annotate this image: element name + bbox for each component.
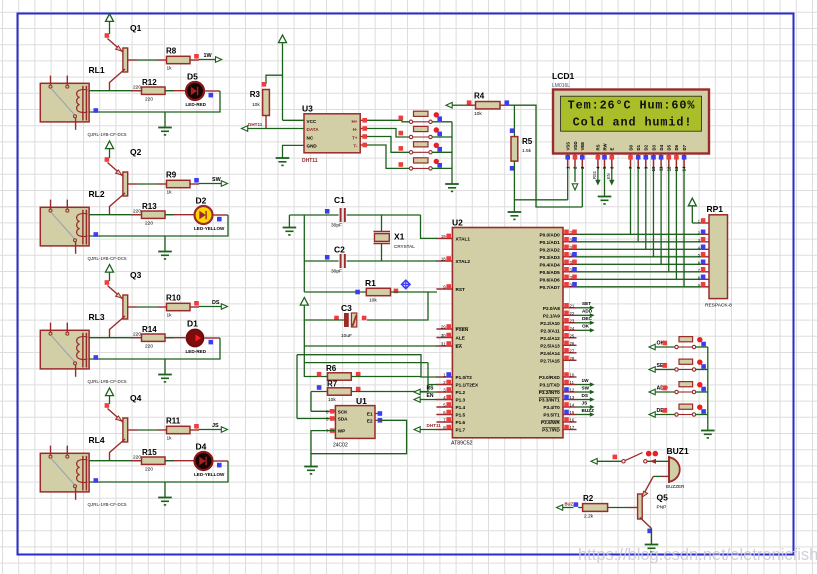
svg-text:2.2k: 2.2k bbox=[584, 514, 594, 520]
ground bbox=[164, 236, 166, 252]
net terminal (buzzer supply) bbox=[591, 459, 597, 465]
power terminal for RP1 bbox=[688, 198, 696, 206]
ground bbox=[276, 157, 290, 159]
U2 pin 11 P3.1/TXD bbox=[563, 384, 577, 386]
wire LCD D1 to P0.1 bus bbox=[637, 168, 639, 242]
svg-text:LM016L: LM016L bbox=[552, 83, 570, 89]
wire LCD D2 to P0.2 bus bbox=[645, 168, 647, 249]
wire R15 to D4 bbox=[165, 460, 194, 462]
resistor R6 10k bbox=[304, 376, 327, 378]
wire RST to C3 bbox=[367, 292, 428, 320]
svg-text:C1: C1 bbox=[334, 195, 345, 205]
wire switch to buzzer bbox=[647, 460, 669, 462]
U2 pin 39 P0.0/AD0 bbox=[563, 233, 577, 235]
U2 pin 36 P0.3/AD3 bbox=[563, 256, 577, 258]
svg-text:RS1: RS1 bbox=[592, 170, 597, 179]
U2 pin 18 XTAL2 bbox=[436, 260, 452, 262]
wire buzzer bottom to Q5 emitter bbox=[662, 475, 669, 477]
net terminal DS bbox=[190, 306, 199, 308]
svg-text:C3: C3 bbox=[341, 303, 352, 313]
node junction bbox=[94, 232, 99, 237]
resistor R13 220 bbox=[131, 214, 146, 216]
RP1 pin 8 bbox=[701, 278, 709, 280]
button (DHT11 adjust 1) bbox=[409, 120, 412, 123]
relay RL2 bbox=[40, 207, 89, 246]
svg-text:XTAL2: XTAL2 bbox=[456, 259, 471, 264]
svg-text:P3.2/INT0: P3.2/INT0 bbox=[539, 390, 560, 395]
U2 pin 16 P3.6/WR bbox=[563, 421, 577, 423]
capacitor C1 30pF bbox=[325, 209, 330, 214]
wire button to ground rail bbox=[696, 346, 708, 348]
svg-text:DS: DS bbox=[582, 393, 589, 398]
svg-text:D3: D3 bbox=[651, 144, 656, 150]
net E to down arrow bbox=[611, 168, 613, 180]
power terminal VCC rail bbox=[300, 298, 308, 306]
svg-text:QJRL-1#B-CF-DC5: QJRL-1#B-CF-DC5 bbox=[88, 256, 128, 261]
U2 pin 2 P1.1/T2EX bbox=[436, 384, 452, 386]
wire R12 to D5 bbox=[165, 90, 186, 92]
U2 pin 25 P2.4/A12 bbox=[563, 337, 577, 339]
wire SDA vertical bbox=[296, 355, 298, 419]
svg-text:D1: D1 bbox=[636, 144, 641, 150]
RP1 pin 7 bbox=[701, 271, 709, 273]
svg-text:R11: R11 bbox=[166, 417, 181, 426]
svg-text:30: 30 bbox=[441, 333, 446, 338]
svg-text:13: 13 bbox=[570, 395, 575, 400]
LED D1 LED-RED bbox=[186, 329, 203, 346]
svg-text:P1.0/T2: P1.0/T2 bbox=[456, 375, 473, 380]
wire button to ground rail bbox=[432, 167, 452, 169]
transistor Q3 (PNP) bbox=[108, 286, 123, 300]
svg-text:RS: RS bbox=[596, 144, 601, 150]
wire coil row bbox=[89, 337, 146, 339]
svg-text:D1: D1 bbox=[187, 319, 198, 329]
node junction bbox=[94, 108, 99, 113]
svg-text:EN: EN bbox=[606, 173, 611, 179]
transistor Q5 (PNP) bbox=[641, 476, 653, 498]
wire coil row bbox=[89, 90, 146, 92]
svg-text:P0.2/AD2: P0.2/AD2 bbox=[539, 247, 560, 252]
svg-text:30pF: 30pF bbox=[331, 223, 342, 229]
ground bbox=[304, 466, 318, 468]
respack RP1 RESPACK-8 bbox=[709, 215, 728, 299]
svg-text:H+: H+ bbox=[351, 119, 357, 124]
svg-text:LED-RED: LED-RED bbox=[186, 349, 207, 354]
svg-text:R14: R14 bbox=[142, 325, 157, 334]
wire C3 to VCC rail bbox=[304, 319, 344, 321]
svg-text:P2.0/A8: P2.0/A8 bbox=[543, 306, 560, 311]
svg-text:DHT11: DHT11 bbox=[427, 423, 442, 428]
wire coil row bbox=[89, 214, 146, 216]
svg-text:10k: 10k bbox=[328, 397, 336, 403]
svg-text:T+: T+ bbox=[352, 135, 358, 140]
U2 pin 19 XTAL1 bbox=[436, 237, 452, 239]
svg-text:DHT11: DHT11 bbox=[248, 122, 263, 127]
svg-text:220: 220 bbox=[145, 97, 153, 103]
wire button to ground rail bbox=[432, 121, 452, 123]
svg-text:PNP: PNP bbox=[657, 505, 667, 511]
resistor R7 10k bbox=[311, 391, 328, 393]
LED D4 LED-YELLOW bbox=[195, 452, 213, 470]
svg-text:P0.3/AD3: P0.3/AD3 bbox=[539, 255, 560, 260]
U2 pin 33 P0.6/AD6 bbox=[563, 278, 577, 280]
svg-text:R2: R2 bbox=[583, 494, 594, 503]
svg-text:P2.6/A14: P2.6/A14 bbox=[540, 351, 560, 356]
svg-text:P0.6/AD6: P0.6/AD6 bbox=[539, 277, 560, 282]
wire R2 to Q5 base bbox=[608, 507, 628, 509]
svg-text:D2: D2 bbox=[196, 196, 207, 206]
wire coil row bbox=[89, 460, 146, 462]
svg-text:P3.6/WR: P3.6/WR bbox=[541, 420, 560, 425]
svg-text:26: 26 bbox=[570, 341, 575, 346]
ground for C1 C2 bbox=[288, 215, 290, 227]
resistor R12 220 bbox=[131, 90, 146, 92]
svg-text:17: 17 bbox=[570, 425, 575, 430]
svg-text:P2.5/A13: P2.5/A13 bbox=[540, 343, 560, 348]
wire LCD D6 to P0.6 bus bbox=[675, 168, 677, 279]
power terminal for Q1 bbox=[106, 14, 114, 22]
U2 pin 23 P2.2/A10 bbox=[563, 322, 577, 324]
svg-text:LCD1: LCD1 bbox=[552, 71, 574, 81]
U2 pin 34 P0.5/AD5 bbox=[563, 271, 577, 273]
wire R14 to D1 bbox=[165, 337, 186, 339]
U1 pin E1 bbox=[375, 413, 380, 415]
svg-text:T-: T- bbox=[353, 144, 358, 149]
power terminal for Q3 bbox=[106, 265, 114, 273]
svg-text:GND: GND bbox=[307, 144, 318, 149]
svg-text:P2.7/A15: P2.7/A15 bbox=[540, 358, 560, 363]
svg-text:AT89C52: AT89C52 bbox=[451, 441, 473, 447]
net terminal ADD bbox=[649, 389, 655, 395]
svg-text:P2.4/A12: P2.4/A12 bbox=[540, 336, 560, 341]
svg-text:27: 27 bbox=[570, 348, 575, 353]
svg-text:E2: E2 bbox=[367, 418, 373, 423]
wire R6 to P1.0 bbox=[351, 376, 421, 378]
svg-text:R9: R9 bbox=[166, 171, 177, 180]
button SET bbox=[675, 368, 678, 371]
U2 pin 32 P0.7/AD7 bbox=[563, 286, 577, 288]
svg-text:P1.3: P1.3 bbox=[456, 398, 466, 403]
resistor R15 220 bbox=[131, 460, 146, 462]
svg-text:24C02: 24C02 bbox=[333, 443, 348, 449]
svg-text:P1.4: P1.4 bbox=[456, 405, 466, 410]
transistor Q4 (PNP) bbox=[108, 409, 123, 423]
svg-text:C2: C2 bbox=[334, 245, 345, 255]
U2 pin 4 P1.3 bbox=[436, 399, 452, 401]
wire U3 VCC bbox=[283, 119, 305, 121]
button (DHT11 adjust 2) bbox=[409, 135, 412, 138]
wire U3 pin to button 4 bbox=[360, 144, 368, 146]
svg-text:XTAL1: XTAL1 bbox=[456, 236, 471, 241]
svg-text:QJRL-1#B-CF-DC5: QJRL-1#B-CF-DC5 bbox=[88, 502, 128, 507]
svg-text:VCC: VCC bbox=[307, 119, 317, 124]
svg-text:24: 24 bbox=[570, 326, 575, 331]
U2 pin 1 P1.0/T2 bbox=[436, 376, 452, 378]
sensor U3 DHT11 bbox=[304, 114, 360, 153]
svg-text:P1.6: P1.6 bbox=[456, 420, 466, 425]
svg-text:1k: 1k bbox=[167, 190, 173, 196]
U2 pin 12 P3.2/INT0 bbox=[563, 391, 577, 393]
button ADD bbox=[675, 390, 678, 393]
svg-text:RESPACK-8: RESPACK-8 bbox=[705, 303, 732, 309]
svg-text:D2: D2 bbox=[644, 144, 649, 150]
svg-text:15: 15 bbox=[570, 410, 575, 415]
svg-text:P1.5: P1.5 bbox=[456, 413, 466, 418]
U2 pin 22 P2.1/A9 bbox=[563, 314, 577, 316]
svg-text:P0.1/AD1: P0.1/AD1 bbox=[539, 240, 560, 245]
net terminal OK bbox=[649, 344, 655, 350]
svg-text:10: 10 bbox=[570, 373, 575, 378]
button (DHT11 adjust 4) bbox=[409, 167, 412, 170]
U2 pin 37 P0.2/AD2 bbox=[563, 248, 577, 250]
wire base to R9 bbox=[137, 183, 157, 185]
relay RL4 bbox=[40, 453, 89, 492]
button DEC bbox=[675, 413, 678, 416]
svg-text:DATA: DATA bbox=[307, 127, 320, 132]
switch (buzzer test) bbox=[622, 460, 625, 463]
RP1 pin 5 bbox=[701, 256, 709, 258]
RP1 pin 3 bbox=[701, 241, 709, 243]
svg-text:25: 25 bbox=[570, 333, 575, 338]
power terminal for U3 bbox=[279, 35, 287, 43]
wire LED loop bbox=[204, 90, 220, 92]
svg-text:R1: R1 bbox=[365, 278, 376, 288]
svg-text:12: 12 bbox=[570, 388, 575, 393]
svg-text:E: E bbox=[610, 148, 615, 151]
net terminal BUZZ / resistor R2 bbox=[557, 505, 563, 511]
svg-text:10k: 10k bbox=[474, 111, 482, 117]
resistor R5 1.5k bbox=[510, 128, 515, 133]
svg-text:28: 28 bbox=[570, 356, 575, 361]
svg-text:RST: RST bbox=[456, 287, 466, 292]
wire U3 pin to button 3 bbox=[360, 136, 368, 138]
resistor R9 1k bbox=[167, 180, 191, 187]
svg-text:P0.4/AD4: P0.4/AD4 bbox=[539, 262, 560, 267]
svg-text:P3.1/TXD: P3.1/TXD bbox=[539, 383, 560, 388]
relay RL3 bbox=[40, 330, 89, 369]
svg-text:Tem:26°C Hum:60%: Tem:26°C Hum:60% bbox=[568, 99, 696, 113]
resistor R3 10k bbox=[262, 82, 267, 87]
U2 pin 38 P0.1/AD1 bbox=[563, 241, 577, 243]
transistor Q2 (PNP) bbox=[108, 163, 123, 177]
node marker (blue diamond) bbox=[402, 280, 410, 288]
svg-text:BUZ1: BUZ1 bbox=[667, 446, 689, 456]
svg-text:220: 220 bbox=[145, 221, 153, 227]
resistor R1 10k bbox=[355, 290, 360, 295]
resistor R4 10k bbox=[467, 100, 472, 105]
svg-text:SCK: SCK bbox=[338, 409, 348, 414]
svg-text:VEE: VEE bbox=[580, 142, 585, 151]
U2 pin 29 PSEN bbox=[436, 328, 452, 330]
svg-text:1W: 1W bbox=[582, 378, 590, 383]
svg-text:NC: NC bbox=[307, 135, 314, 140]
U2 pin 14 P3.4/T0 bbox=[563, 406, 577, 408]
svg-text:R8: R8 bbox=[166, 47, 177, 56]
node junction bbox=[94, 355, 99, 360]
wire base to R11 bbox=[137, 429, 157, 431]
wire EA to VCC bbox=[304, 345, 437, 347]
svg-text:P2.1/A9: P2.1/A9 bbox=[543, 313, 560, 318]
resistor R14 220 bbox=[131, 337, 146, 339]
RP1 pin 6 bbox=[701, 263, 709, 265]
resistor R10 1k bbox=[167, 303, 191, 310]
wire XTAL2 net bbox=[304, 260, 338, 262]
U2 pin 6 P1.5 bbox=[436, 414, 452, 416]
svg-text:OK: OK bbox=[582, 324, 590, 329]
ground bbox=[164, 112, 166, 128]
power terminal for Q4 bbox=[106, 388, 114, 396]
svg-text:R10: R10 bbox=[166, 294, 181, 303]
net terminal SET bbox=[649, 367, 655, 373]
wire VCC to SDA riser bbox=[304, 362, 428, 364]
ground bbox=[164, 359, 166, 375]
svg-text:1k: 1k bbox=[167, 66, 173, 72]
svg-text:LED-RED: LED-RED bbox=[186, 102, 207, 107]
svg-text:H-: H- bbox=[353, 127, 358, 132]
wire R5 bottom to ground and VSS bbox=[513, 161, 515, 212]
svg-text:P1.2: P1.2 bbox=[456, 390, 466, 395]
svg-text:D7: D7 bbox=[682, 144, 687, 150]
button OK bbox=[675, 345, 678, 348]
net SET ADD DEC OK on P2.0-P2.3 bbox=[577, 307, 591, 309]
svg-text:LED-YELLOW: LED-YELLOW bbox=[194, 472, 225, 477]
EEPROM U1 24C02 bbox=[335, 406, 375, 439]
svg-text:BUZZ: BUZZ bbox=[582, 408, 595, 413]
LED D2 LED-YELLOW bbox=[195, 206, 213, 224]
svg-text:14: 14 bbox=[570, 403, 575, 408]
wire button ground rail bbox=[707, 347, 709, 430]
net 1W SW DS JS BUZZ on P3.1-P3.5 bbox=[577, 384, 591, 386]
svg-text:P2.3/A11: P2.3/A11 bbox=[541, 328, 561, 333]
svg-text:220: 220 bbox=[145, 344, 153, 350]
svg-text:21: 21 bbox=[570, 303, 575, 308]
U2 pin 31 EA bbox=[436, 345, 452, 347]
wire LED loop bbox=[213, 214, 228, 216]
node junction bbox=[94, 478, 99, 483]
wire LCD D4 to P0.4 bus bbox=[660, 168, 662, 264]
wire R7 to P1.1 bbox=[351, 385, 428, 392]
wire buttons ground rail bbox=[451, 122, 453, 184]
svg-text:U2: U2 bbox=[452, 218, 463, 228]
resistor R8 1k bbox=[167, 56, 191, 63]
svg-text:EA: EA bbox=[456, 344, 463, 349]
U1 pin E2 bbox=[375, 419, 380, 421]
wire button to ground rail bbox=[432, 151, 452, 153]
RP1 pin 2 bbox=[701, 233, 709, 235]
wire WP/E2 ground loop bbox=[311, 431, 335, 466]
U2 pin 3 P1.2 bbox=[436, 391, 452, 393]
svg-text:RL3: RL3 bbox=[89, 312, 105, 322]
svg-text:10uF: 10uF bbox=[341, 333, 352, 339]
svg-text:SW: SW bbox=[582, 385, 590, 390]
svg-text:R6: R6 bbox=[326, 364, 337, 373]
svg-text:RS: RS bbox=[427, 386, 435, 392]
relay RL1 bbox=[40, 83, 89, 122]
transistor Q1 (PNP) bbox=[108, 39, 123, 53]
svg-text:VSS: VSS bbox=[566, 142, 571, 151]
wire LCD RW to ground bbox=[604, 168, 606, 196]
RP1 pin 4 bbox=[701, 248, 709, 250]
U2 pin 27 P2.6/A14 bbox=[563, 352, 577, 354]
button (DHT11 adjust 3) bbox=[409, 151, 412, 154]
power terminal for R4 bbox=[446, 102, 452, 108]
svg-text:RL1: RL1 bbox=[89, 65, 105, 75]
svg-text:P3.0/RXD: P3.0/RXD bbox=[539, 375, 560, 380]
svg-text:X1: X1 bbox=[394, 232, 405, 242]
svg-text:JS: JS bbox=[212, 423, 219, 429]
svg-text:R13: R13 bbox=[142, 202, 157, 211]
wire LCD VEE bbox=[581, 168, 583, 207]
wire R1 to RST bbox=[391, 291, 438, 293]
svg-text:PSEN: PSEN bbox=[456, 327, 469, 332]
U1 pin 5 SDA bbox=[331, 418, 336, 420]
svg-text:VDD: VDD bbox=[573, 141, 578, 150]
resistor R11 1k bbox=[167, 426, 191, 433]
wire SCK feed bbox=[310, 392, 312, 412]
svg-text:QJRL-1#B-CF-DC5: QJRL-1#B-CF-DC5 bbox=[88, 379, 128, 384]
wire SCL net upper loop bbox=[297, 355, 437, 377]
U2 pin 9 RST bbox=[436, 288, 452, 290]
wire LCD VSS to ground rail bbox=[567, 168, 569, 200]
wire SDA feed bbox=[297, 418, 331, 420]
wire P0 bus rows to RP1 bbox=[577, 233, 702, 235]
svg-text:DEC: DEC bbox=[582, 316, 593, 321]
svg-text:1k: 1k bbox=[167, 313, 173, 319]
svg-text:RL2: RL2 bbox=[89, 189, 105, 199]
wire R13 to D2 bbox=[165, 214, 194, 216]
svg-text:R7: R7 bbox=[327, 380, 338, 389]
svg-text:P1.7: P1.7 bbox=[456, 428, 466, 433]
wire LED loop bbox=[204, 337, 220, 339]
wire LCD D5 to P0.5 bus bbox=[668, 168, 670, 272]
svg-text:220: 220 bbox=[133, 85, 141, 91]
MCU U2 AT89C52 bbox=[452, 228, 563, 438]
svg-text:RW: RW bbox=[602, 142, 607, 150]
svg-text:1.5k: 1.5k bbox=[522, 148, 532, 154]
svg-text:Q1: Q1 bbox=[130, 23, 142, 33]
wire U3 pin to button 2 bbox=[360, 128, 368, 130]
svg-text:Q2: Q2 bbox=[130, 147, 142, 157]
net terminal JS bbox=[190, 429, 199, 431]
svg-text:220: 220 bbox=[145, 467, 153, 473]
net terminal SW bbox=[190, 183, 199, 185]
RP1 pin 1 bbox=[701, 222, 709, 224]
wire Q5 collector to ground bbox=[647, 529, 652, 534]
svg-text:29: 29 bbox=[441, 325, 446, 330]
U2 pin 17 P3.7/RD bbox=[563, 429, 577, 431]
capacitor C2 30pF bbox=[325, 255, 330, 260]
svg-text:D5: D5 bbox=[667, 144, 672, 150]
U2 pin 8 P1.7 bbox=[436, 429, 452, 431]
net terminal 1W bbox=[190, 59, 199, 61]
svg-text:31: 31 bbox=[441, 342, 446, 347]
wire LCD D3 to P0.3 bus bbox=[652, 168, 654, 257]
wire VCC jog to R3 bbox=[266, 75, 283, 84]
net terminal DHT11 (data) bbox=[242, 126, 248, 132]
svg-text:11: 11 bbox=[570, 380, 575, 385]
U2 pin 10 P3.0/RXD bbox=[563, 376, 577, 378]
svg-text:D5: D5 bbox=[187, 72, 198, 82]
svg-text:SW: SW bbox=[212, 177, 222, 183]
U2 pin 15 P3.5/T1 bbox=[563, 414, 577, 416]
svg-text:QJRL-1#B-CF-DC5: QJRL-1#B-CF-DC5 bbox=[88, 132, 128, 137]
wire button to ground rail bbox=[696, 414, 708, 416]
svg-text:30pF: 30pF bbox=[331, 269, 342, 275]
U1 pin 7 WP bbox=[331, 430, 336, 432]
svg-text:LED-YELLOW: LED-YELLOW bbox=[194, 226, 225, 231]
wire U3 GND to ground bbox=[283, 145, 305, 157]
svg-text:https://blog.csdn.net/eletroni: https://blog.csdn.net/eletronicfish bbox=[578, 546, 817, 564]
